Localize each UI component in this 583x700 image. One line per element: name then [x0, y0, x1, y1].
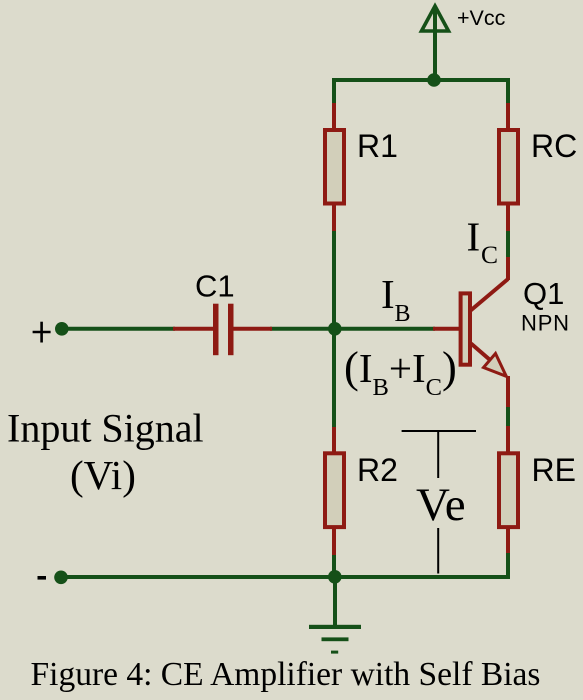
svg-text:C1: C1 [195, 269, 235, 304]
svg-text:(Vi): (Vi) [70, 452, 136, 498]
svg-text:B: B [395, 301, 411, 327]
svg-text:I: I [467, 213, 481, 259]
svg-text:NPN: NPN [521, 311, 570, 336]
svg-text:R2: R2 [357, 452, 398, 488]
svg-text:Ve: Ve [416, 479, 466, 531]
svg-text:C: C [481, 240, 498, 269]
svg-text:Figure 4: CE Amplifier with Se: Figure 4: CE Amplifier with Self Bias [31, 656, 541, 693]
svg-text:RE: RE [532, 452, 576, 488]
svg-text:+Vcc: +Vcc [457, 6, 506, 30]
svg-text:I: I [381, 271, 395, 317]
svg-text:Input Signal: Input Signal [7, 406, 204, 451]
svg-text:RC: RC [531, 128, 577, 164]
svg-text:Q1: Q1 [523, 276, 564, 311]
svg-text:R1: R1 [357, 128, 398, 164]
